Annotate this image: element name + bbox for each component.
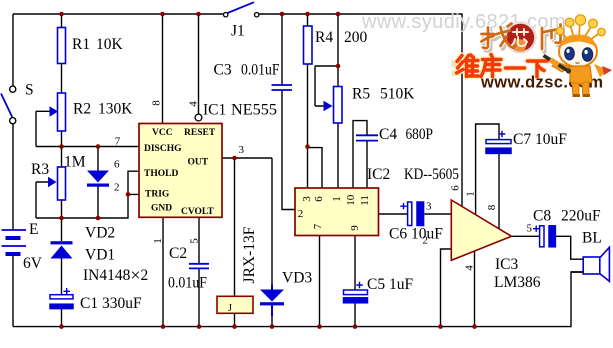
svg-text:680P: 680P	[406, 126, 434, 143]
svg-text:KD--5605: KD--5605	[404, 166, 459, 183]
svg-text:4: 4	[187, 101, 199, 107]
svg-text:VD3: VD3	[282, 270, 312, 287]
svg-text:5: 5	[188, 238, 200, 244]
svg-text:2: 2	[114, 182, 120, 194]
svg-text:VD2: VD2	[85, 225, 115, 242]
svg-text:www.syudiy.6821.com: www.syudiy.6821.com	[361, 11, 566, 33]
svg-text:R4: R4	[315, 29, 333, 46]
svg-text:R2: R2	[73, 101, 91, 118]
svg-text:NE555: NE555	[231, 102, 277, 119]
svg-text:OUT: OUT	[188, 157, 209, 167]
svg-text:1: 1	[331, 196, 343, 202]
svg-text:2: 2	[298, 208, 304, 220]
svg-text:1M: 1M	[64, 154, 86, 171]
svg-text:7: 7	[115, 136, 121, 148]
svg-text:3: 3	[301, 196, 313, 202]
svg-text:VD1: VD1	[85, 247, 115, 264]
svg-text:C2: C2	[169, 245, 187, 262]
svg-text:6V: 6V	[23, 255, 43, 272]
svg-text:C7 10uF: C7 10uF	[513, 131, 567, 148]
svg-text:130K: 130K	[98, 101, 133, 118]
svg-text:8: 8	[150, 100, 162, 106]
svg-text:IC1: IC1	[203, 102, 226, 119]
svg-text:2: 2	[423, 235, 429, 247]
svg-text:220uF: 220uF	[561, 208, 601, 225]
svg-text:1: 1	[464, 191, 476, 197]
svg-text:7: 7	[312, 223, 324, 229]
svg-text:GND: GND	[151, 203, 172, 213]
svg-text:J1: J1	[231, 23, 245, 40]
svg-text:C4: C4	[379, 126, 397, 143]
svg-text:LM386: LM386	[494, 274, 541, 291]
svg-text:6: 6	[114, 159, 120, 171]
svg-text:3: 3	[239, 144, 245, 156]
svg-text:9: 9	[349, 225, 361, 231]
svg-text:VCC: VCC	[152, 128, 173, 138]
svg-text:10K: 10K	[96, 36, 124, 53]
svg-text:0.01uF: 0.01uF	[241, 62, 280, 79]
svg-text:1: 1	[152, 238, 164, 244]
svg-text:11: 11	[359, 195, 371, 206]
svg-text:4: 4	[463, 265, 475, 271]
svg-text:BL: BL	[582, 230, 602, 247]
svg-text:J: J	[228, 303, 232, 314]
svg-text:IN4148×2: IN4148×2	[83, 265, 148, 285]
svg-text:R3: R3	[31, 161, 49, 178]
svg-text:C1 330uF: C1 330uF	[80, 295, 142, 312]
svg-text:C5 1uF: C5 1uF	[367, 276, 413, 293]
svg-text:DISCHG: DISCHG	[144, 144, 182, 154]
svg-text:RESET: RESET	[184, 128, 216, 138]
svg-text:8: 8	[486, 204, 498, 210]
svg-text:C3: C3	[214, 62, 232, 79]
svg-text:3: 3	[426, 201, 432, 213]
svg-text:6: 6	[313, 196, 325, 202]
svg-text:5: 5	[527, 223, 533, 235]
svg-text:R1: R1	[72, 36, 90, 53]
svg-text:TRIG: TRIG	[145, 190, 170, 200]
svg-text:S: S	[25, 82, 34, 99]
svg-text:C6 10uF: C6 10uF	[389, 226, 443, 243]
svg-text:510K: 510K	[380, 86, 415, 103]
svg-text:IC2: IC2	[367, 166, 390, 183]
svg-text:E: E	[29, 221, 38, 238]
svg-text:CVOLT: CVOLT	[181, 207, 214, 217]
svg-text:JRX-13F: JRX-13F	[241, 226, 258, 283]
svg-text:THOLD: THOLD	[144, 169, 178, 179]
svg-text:0.01uF: 0.01uF	[168, 275, 207, 292]
svg-text:10: 10	[345, 194, 357, 206]
svg-text:R5: R5	[352, 86, 370, 103]
svg-text:6: 6	[449, 185, 461, 191]
svg-text:IC3: IC3	[495, 256, 519, 273]
svg-text:C8: C8	[533, 208, 551, 225]
